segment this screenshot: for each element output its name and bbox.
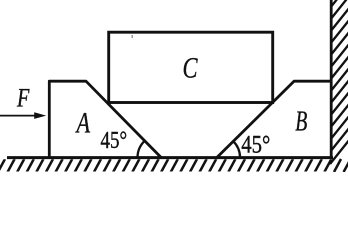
left 45-degree arc <box>138 141 145 158</box>
wedge A <box>49 81 161 157</box>
svg-text:45°: 45° <box>101 127 128 154</box>
right 45-degree arc <box>233 141 240 157</box>
small scan mark <box>132 35 134 38</box>
ground line <box>7 156 333 159</box>
ground hatching <box>0 159 348 172</box>
svg-text:B: B <box>295 106 307 138</box>
svg-text:45°: 45° <box>241 131 270 158</box>
svg-text:C: C <box>183 50 198 84</box>
block C <box>109 32 273 102</box>
force arrow F <box>0 112 46 119</box>
wall hatching <box>330 0 348 164</box>
wedge B <box>217 81 331 157</box>
svg-text:A: A <box>75 105 91 139</box>
svg-text:F: F <box>16 84 30 113</box>
wall line <box>330 0 333 158</box>
